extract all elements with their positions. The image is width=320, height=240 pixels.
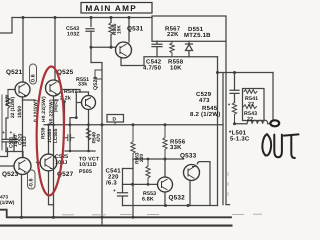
- svg-text:D: D: [113, 117, 117, 123]
- wire R547 link Q525-Q529: [62, 90, 81, 93]
- svg-text:10/50: 10/50: [17, 106, 23, 118]
- wire vertical x129 to Q531: [128, 18, 130, 43]
- svg-text:*L501: *L501: [229, 130, 247, 137]
- wire Q525 emitter column x53.5: [53, 96, 55, 217]
- svg-text:C529: C529: [196, 91, 212, 98]
- wire vertical x91 C543 branch: [90, 18, 92, 27]
- svg-text:103Z: 103Z: [67, 32, 80, 38]
- MAIN AMP title box: [81, 3, 152, 14]
- svg-text:10K: 10K: [170, 65, 182, 72]
- wire x64.5 mid branch: [64, 101, 66, 125]
- resistor R563 on x133: [131, 125, 135, 159]
- resistor R545 zigzag on x234.5: [232, 103, 236, 124]
- svg-text:473: 473: [199, 97, 210, 104]
- capacitor C542 symbol: [152, 41, 162, 56]
- svg-text:MAIN AMP: MAIN AMP: [86, 4, 138, 13]
- wire Q533 emitter: [189, 181, 191, 206]
- svg-text:10K: 10K: [117, 25, 123, 34]
- transistor Q525: [46, 80, 62, 96]
- svg-text:470: 470: [96, 134, 102, 142]
- box R541/R543 enclosure: [243, 89, 265, 121]
- resistor R567 zigzag: [170, 41, 174, 56]
- wire Q527 base stub: [37, 162, 41, 164]
- resistor R556 on x165: [163, 125, 167, 159]
- wire y205.5 lower rail: [123, 205, 218, 207]
- svg-text:Q532: Q532: [169, 195, 186, 202]
- output terminal: [270, 120, 279, 126]
- wire y159 Q533 base rail: [133, 158, 184, 160]
- inductor L501 coil: [235, 120, 271, 124]
- transistor Q523: [14, 158, 31, 175]
- capacitor C525 symbol: [63, 135, 74, 141]
- svg-text:1C555: 1C555: [47, 129, 53, 143]
- wire x76.3 with dot corner: [70, 92, 80, 151]
- svg-text:220: 220: [108, 174, 119, 181]
- wire Q523 emitter to bus1: [21, 175, 23, 218]
- resistor R543 zigzag horizontal: [244, 105, 257, 109]
- resistor R549 zigzag x88.5: [86, 128, 90, 140]
- bus2 bottom rail: [0, 225, 232, 227]
- svg-text:22 (1/2W): 22 (1/2W): [10, 97, 16, 118]
- svg-text:+: +: [113, 189, 116, 194]
- wire y168.5 C541 link: [123, 168, 134, 170]
- wire C542 row bottom rail y56.7: [144, 56, 218, 58]
- svg-text:+: +: [10, 131, 13, 136]
- svg-text:Q521: Q521: [6, 69, 23, 76]
- transistor Q521: [15, 82, 30, 97]
- wire Q531 emitter U: [121, 58, 144, 66]
- wire x122.5 C541 top: [122, 169, 124, 185]
- svg-text:Q533: Q533: [180, 153, 197, 160]
- wire Q521-Q523 column x22.5: [22, 97, 24, 158]
- capacitor C523 symbol: [11, 134, 18, 152]
- wire Q529 base stub: [77, 102, 82, 104]
- wire y151.5 caps bottom: [6, 152, 23, 158]
- resistor R553 on x148: [146, 159, 150, 184]
- wire Q527 emitter: [49, 171, 54, 205]
- box R567/D551 enclosure: [152, 16, 226, 41]
- svg-text:R547: R547: [64, 89, 77, 95]
- svg-text:4.7/50: 4.7/50: [143, 65, 162, 72]
- wire x165 Q532 collector: [164, 159, 166, 177]
- svg-text:H0.22(5W): H0.22(5W): [41, 96, 47, 122]
- wire vertical x226 box right edge: [226, 41, 230, 204]
- wire Q532 emitter: [164, 192, 166, 206]
- capacitor C521 symbol: [2, 139, 9, 151]
- label OUT hand lettering: [262, 134, 298, 158]
- svg-text:8.2 (1/2W): 8.2 (1/2W): [190, 111, 221, 118]
- transistor Q531: [116, 42, 132, 58]
- wire x132.5 down to bus1: [132, 159, 134, 217]
- red annotation ellipse: [36, 66, 65, 195]
- svg-text:6.8K: 6.8K: [142, 197, 154, 203]
- svg-text:-0.6: -0.6: [29, 178, 35, 188]
- wire Q521 base stub: [8, 89, 15, 91]
- wire y151 stub: [65, 150, 95, 152]
- svg-text:P505: P505: [79, 169, 92, 175]
- svg-text:33k: 33k: [78, 82, 87, 88]
- wire vertical x223 bus B1: [222, 73, 224, 205]
- wire top rail: [12, 17, 152, 19]
- svg-text:D551: D551: [188, 26, 204, 33]
- connector box D: [107, 115, 124, 123]
- svg-text:R539: R539: [41, 127, 47, 139]
- wire Q529 emitter: [88, 110, 90, 152]
- wire left entry step: [0, 18, 12, 34]
- capacitor C541 symbol: [118, 184, 128, 205]
- svg-text:Q531: Q531: [127, 26, 144, 33]
- transistor Q527: [40, 154, 57, 171]
- transistor Q532: [158, 177, 173, 192]
- small relay box: [95, 70, 102, 79]
- pill 0.6 callout: [30, 64, 37, 84]
- svg-text:R545: R545: [202, 105, 218, 112]
- transistor Q533: [184, 165, 200, 181]
- gray dashes above bus1: [62, 172, 262, 215]
- wire Q523 base from left edge: [0, 165, 14, 167]
- wire y72.5 to output: [218, 72, 274, 74]
- svg-text:MTZ5.1B: MTZ5.1B: [184, 32, 211, 39]
- svg-text:Q529: Q529: [93, 76, 99, 90]
- svg-text:(M)(C): (M)(C): [53, 100, 58, 112]
- pill -0.6 callout: [28, 170, 36, 189]
- zener D551 symbol: [186, 41, 193, 56]
- wire vertical x102 long: [92, 63, 103, 226]
- svg-text:473: 473: [0, 195, 8, 201]
- svg-text:/6.3: /6.3: [106, 180, 117, 187]
- wire Q529 collector: [80, 92, 89, 96]
- svg-text:22K: 22K: [167, 31, 179, 38]
- wire y124.8 long rail: [44, 124, 223, 126]
- svg-text:220: 220: [139, 154, 145, 162]
- svg-text:+: +: [2, 131, 5, 136]
- bus1 ground rail: [0, 210, 231, 218]
- wire x6 caps top: [6, 118, 8, 139]
- svg-text:33K: 33K: [170, 144, 182, 151]
- svg-text:22: 22: [248, 102, 254, 108]
- wire vertical x111 R565 branch: [110, 18, 112, 23]
- svg-text:10/11D: 10/11D: [79, 162, 97, 168]
- wire left edge stub y156: [0, 148, 8, 157]
- wire Q531 base rail y47.3: [91, 46, 116, 48]
- svg-text:R558: R558: [168, 59, 184, 66]
- svg-text:22: 22: [247, 117, 253, 123]
- transistor Q529: [82, 96, 96, 110]
- svg-text:5-1.3C: 5-1.3C: [230, 136, 250, 143]
- resistor R557 column x8: [6, 90, 10, 119]
- resistor R541 zigzag horizontal: [244, 90, 257, 94]
- wire Q533 collector L: [197, 162, 210, 206]
- wire vertical x23 to Q521: [22, 18, 24, 83]
- wire vertical x276 to terminal: [272, 73, 274, 120]
- svg-text:0.6: 0.6: [31, 74, 37, 82]
- wire vertical x55 to Q525: [54, 18, 56, 81]
- wire Q527 collector: [48, 125, 50, 154]
- wire y184.4 Q532 base rail: [123, 183, 158, 185]
- svg-text:LC555: LC555: [53, 128, 59, 143]
- capacitor C529 symbol on x234.5: [230, 73, 239, 103]
- wire Q525 emitter link y100: [54, 99, 59, 101]
- wire Q521 emitter link y100: [23, 99, 36, 101]
- capacitor C543: [86, 29, 94, 32]
- svg-text:(1/2W): (1/2W): [0, 200, 15, 206]
- resistor R565 zigzag: [109, 23, 113, 35]
- svg-text:103J: 103J: [22, 136, 28, 147]
- svg-text:C541: C541: [106, 168, 122, 175]
- svg-text:Q525: Q525: [57, 69, 74, 76]
- svg-text:C542: C542: [146, 59, 162, 66]
- svg-text:Q523: Q523: [2, 171, 19, 178]
- wire x91 cap to corner: [90, 47, 92, 62]
- left edge wire stub: [1, 95, 3, 150]
- wire vertical x217.5 bus A: [217, 57, 219, 206]
